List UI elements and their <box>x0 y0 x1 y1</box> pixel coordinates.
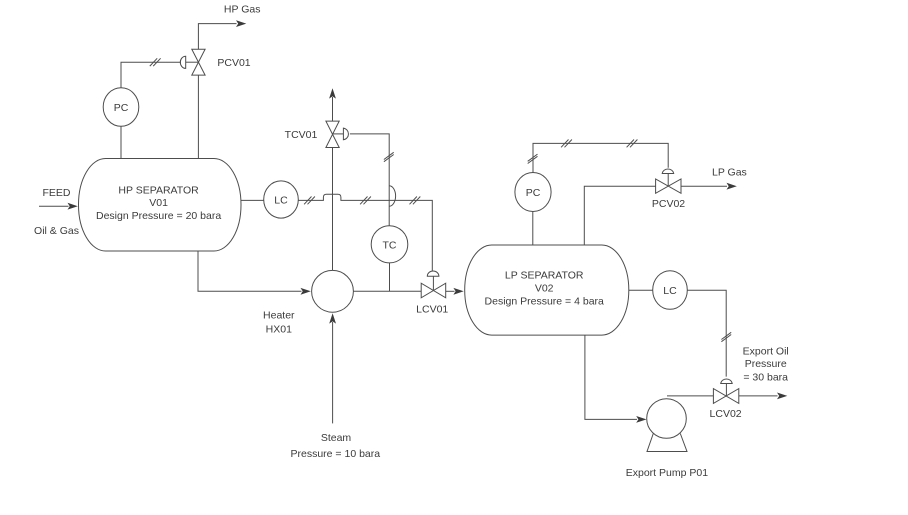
svg-text:PCV02: PCV02 <box>652 198 685 210</box>
signal: PC2 to PCV02 <box>533 143 668 172</box>
svg-text:PCV01: PCV01 <box>217 57 250 69</box>
wire: LC2 to V02 nozzle <box>629 289 653 291</box>
svg-text:LC: LC <box>663 285 677 297</box>
svg-text:HP SEPARATOR: HP SEPARATOR <box>118 185 199 197</box>
arrow TCV01 vent up <box>329 88 336 98</box>
valve PCV02 <box>656 179 681 193</box>
signal: TCV01 to TC with hop bump <box>350 134 389 226</box>
svg-text:Export Pump P01: Export Pump P01 <box>626 467 708 479</box>
wire: TC to process pipe <box>389 263 391 291</box>
svg-text:PC: PC <box>114 102 129 114</box>
svg-text:LCV01: LCV01 <box>416 303 448 315</box>
svg-text:PC: PC <box>526 187 541 199</box>
svg-text:LCV02: LCV02 <box>710 408 742 420</box>
svg-text:Design Pressure = 4 bara: Design Pressure = 4 bara <box>485 296 605 308</box>
arrow into V02 <box>453 288 463 295</box>
wire: PC2 to V02 nozzle <box>532 212 534 246</box>
hop bump on TC signal at crossing <box>389 186 395 206</box>
svg-text:Heater: Heater <box>263 309 295 321</box>
svg-text:V02: V02 <box>535 283 554 295</box>
svg-text:Oil & Gas: Oil & Gas <box>34 225 79 237</box>
pipe: FEED line <box>39 205 69 207</box>
svg-text:= 30 bara: = 30 bara <box>743 372 788 384</box>
svg-text:Export Oil: Export Oil <box>743 345 789 357</box>
svg-text:LC: LC <box>274 195 288 207</box>
signal: PC1 to PCV01 <box>121 62 181 87</box>
pipe: LCV02 to export arrow <box>739 395 778 397</box>
actuator LCV01 <box>427 271 439 276</box>
wire: LC1 to V01 nozzle <box>241 199 264 201</box>
instrument LC2 <box>653 271 688 310</box>
arrow into heater <box>301 288 311 295</box>
wire: PC1 to V01 nozzle <box>120 126 122 158</box>
signal ticks PC2-PCV02 horizontal <box>561 140 572 148</box>
arrow export <box>777 393 787 400</box>
instrument LC1 <box>264 181 299 218</box>
actuator TCV01 <box>343 128 348 140</box>
valve TCV01 <box>326 121 339 147</box>
pipe: TCV01 vent line <box>332 97 334 121</box>
actuator PCV02 <box>662 169 674 174</box>
pipe: LCV01 to V02 <box>446 290 455 292</box>
svg-text:TCV01: TCV01 <box>285 129 318 141</box>
pipe: heater to LCV01 <box>353 290 421 292</box>
svg-text:LP Gas: LP Gas <box>712 166 747 178</box>
valve LCV02 <box>713 389 738 404</box>
signal: LC1 to LCV01 with hop over pipe <box>298 194 432 271</box>
pipe: TCV01 to heater top <box>332 148 334 271</box>
heater HX01 <box>312 270 354 312</box>
pipe: steam supply <box>332 322 334 423</box>
svg-text:Steam: Steam <box>321 432 352 444</box>
signal ticks LC1 line <box>304 197 315 205</box>
svg-text:V01: V01 <box>149 197 168 209</box>
signal ticks PC1-PCV01 <box>150 58 161 66</box>
actuator LCV02 <box>721 379 733 384</box>
arrow LP Gas <box>727 183 737 190</box>
svg-text:Pressure = 10 bara: Pressure = 10 bara <box>291 448 381 460</box>
vessel V01 HP Separator <box>79 159 242 252</box>
signal: LC2 to LCV02 <box>687 290 726 376</box>
vessel V02 LP Separator <box>465 245 629 335</box>
pipe: PCV02 to LP Gas arrow <box>681 185 727 187</box>
arrow into pump <box>636 416 646 423</box>
arrow steam up <box>329 313 336 323</box>
pipe: V01 bottom to heater <box>198 251 302 291</box>
actuator PCV01 <box>180 56 185 68</box>
svg-text:LP SEPARATOR: LP SEPARATOR <box>505 270 584 282</box>
svg-text:Pressure: Pressure <box>745 358 787 370</box>
valve LCV01 <box>421 283 446 298</box>
pipe: pump discharge to LCV02 <box>667 395 713 397</box>
pump P01 <box>647 434 687 452</box>
instrument PC2 <box>515 173 551 212</box>
svg-text:Design Pressure = 20 bara: Design Pressure = 20 bara <box>96 210 221 222</box>
signal tick PC2 vertical <box>528 154 538 163</box>
svg-text:FEED: FEED <box>42 187 70 199</box>
svg-text:TC: TC <box>383 239 397 251</box>
pipe: V02 bottom to pump P01 <box>585 335 637 419</box>
svg-text:HP Gas: HP Gas <box>224 4 261 16</box>
valve PCV01 <box>192 49 205 75</box>
arrow FEED <box>68 203 78 210</box>
instrument PC1 <box>103 88 139 127</box>
svg-text:HX01: HX01 <box>266 323 292 335</box>
arrow HP Gas <box>236 20 246 27</box>
pipe: PCV01 bottom to V01 top <box>197 75 199 158</box>
instrument TC <box>371 226 408 263</box>
signal tick LC2-LCV02 vertical <box>721 332 731 341</box>
signal tick TCV01-TC vertical <box>384 152 394 161</box>
pipe: PCV01 to HP Gas arrow <box>198 24 236 50</box>
pipe: V02 top to PCV02 <box>584 186 655 245</box>
